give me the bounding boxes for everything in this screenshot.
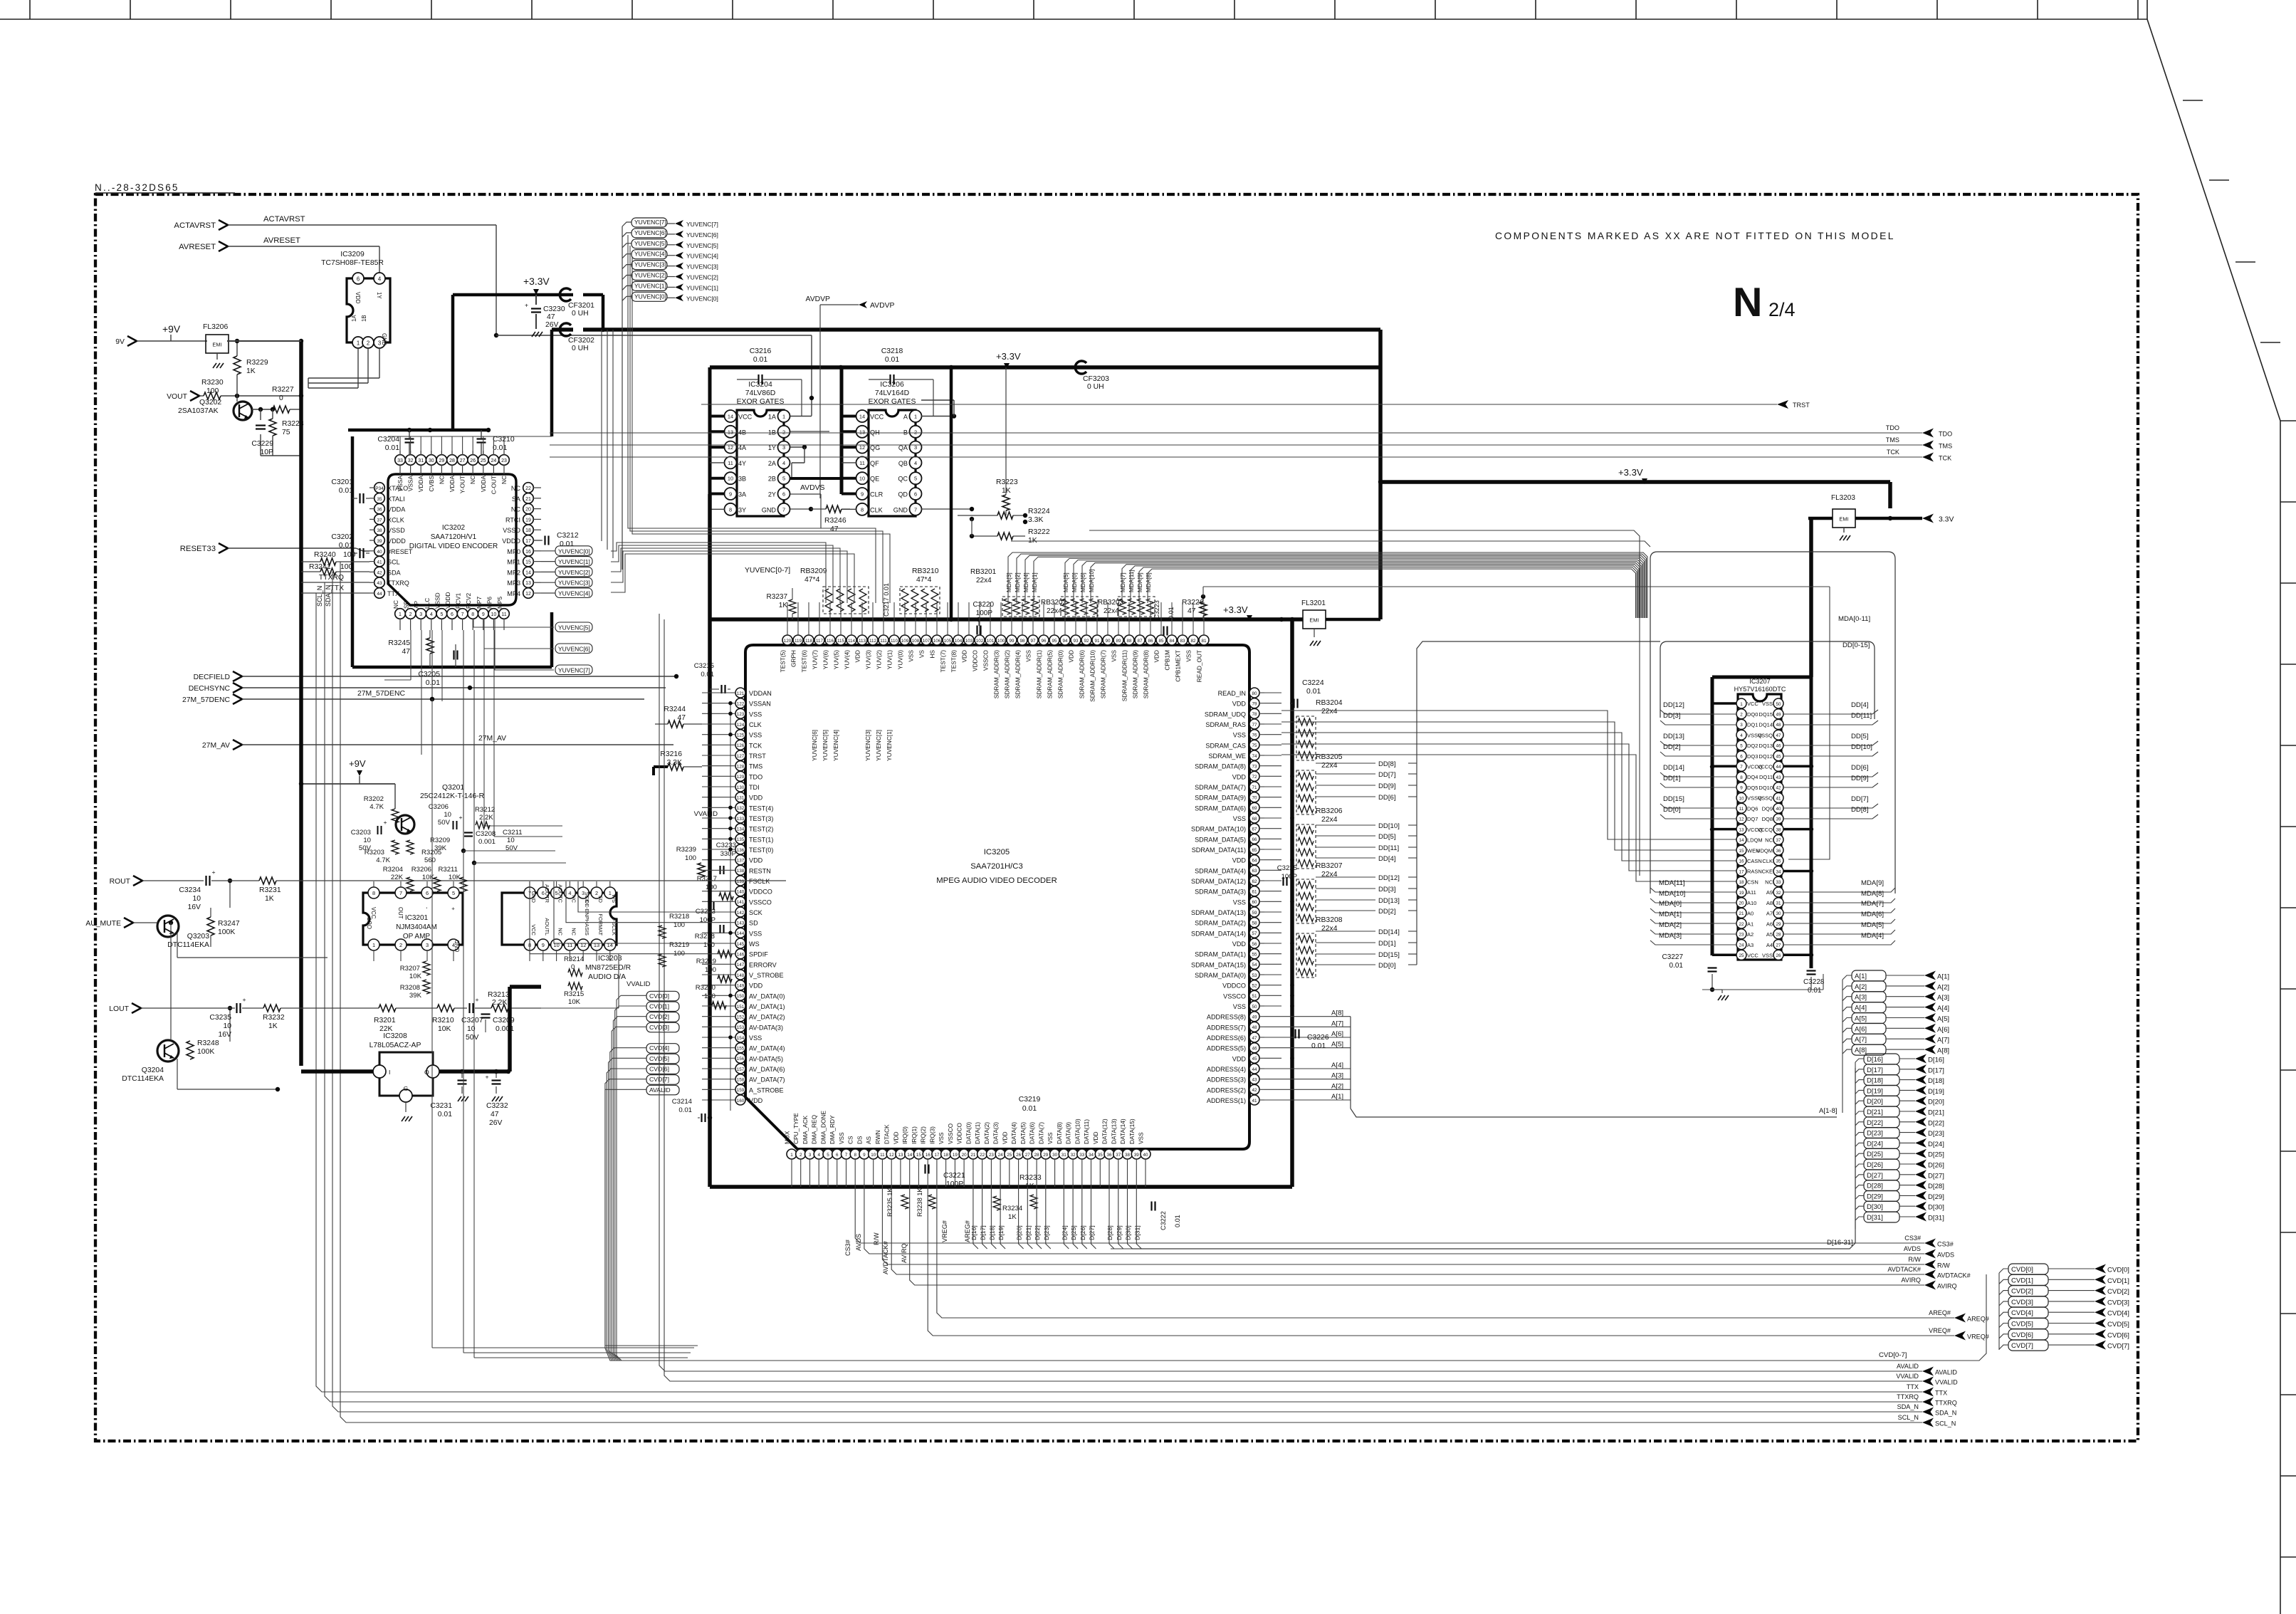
svg-text:DQ11: DQ11	[1759, 774, 1773, 780]
svg-text:DD[0]: DD[0]	[1378, 962, 1396, 970]
svg-text:MP4: MP4	[507, 590, 520, 597]
svg-text:R3203: R3203	[365, 849, 384, 856]
svg-text:96: 96	[1041, 639, 1047, 644]
svg-text:CVD[0-7]: CVD[0-7]	[1879, 1351, 1907, 1359]
svg-text:DMA_ACK: DMA_ACK	[802, 1115, 809, 1144]
svg-text:3.3K: 3.3K	[1028, 516, 1043, 524]
svg-text:CSN: CSN	[1747, 879, 1758, 885]
svg-text:1: 1	[914, 414, 917, 420]
svg-text:158: 158	[737, 1078, 745, 1083]
svg-text:D[20]: D[20]	[1928, 1099, 1944, 1106]
svg-text:2SA1037AK: 2SA1037AK	[178, 407, 219, 415]
svg-text:SDRAM_ADDR(1): SDRAM_ADDR(1)	[1036, 650, 1043, 698]
svg-text:135: 135	[737, 837, 745, 842]
svg-text:DD[4]: DD[4]	[1378, 855, 1396, 863]
svg-text:RESET33: RESET33	[180, 545, 216, 553]
svg-text:CVD[5]: CVD[5]	[2107, 1321, 2129, 1329]
svg-text:119: 119	[795, 639, 802, 644]
svg-text:DD[10]: DD[10]	[1378, 822, 1400, 830]
svg-text:YUVENC[4]: YUVENC[4]	[832, 730, 839, 761]
svg-text:88: 88	[1126, 639, 1132, 644]
svg-text:MDA[9]: MDA[9]	[1861, 879, 1884, 887]
svg-text:CF3201: CF3201	[568, 302, 594, 310]
svg-text:54: 54	[1252, 963, 1257, 968]
svg-text:C3216: C3216	[750, 347, 772, 355]
svg-text:104: 104	[955, 639, 963, 644]
svg-text:VDD: VDD	[1232, 773, 1247, 780]
svg-text:0.01: 0.01	[1174, 1215, 1181, 1227]
svg-text:30: 30	[429, 458, 434, 463]
svg-text:MDA[3]: MDA[3]	[1005, 572, 1012, 592]
svg-text:TEST(8): TEST(8)	[950, 650, 958, 673]
svg-text:C3201: C3201	[331, 478, 353, 486]
svg-text:NC: NC	[1765, 837, 1773, 844]
svg-text:C3210: C3210	[493, 436, 515, 444]
svg-text:D[28]: D[28]	[1928, 1183, 1944, 1190]
svg-text:2: 2	[1740, 713, 1743, 718]
svg-text:SCL_N: SCL_N	[316, 586, 323, 607]
svg-text:QC: QC	[898, 476, 908, 483]
svg-text:SDRAM_DATA(5): SDRAM_DATA(5)	[1195, 836, 1246, 843]
svg-text:YUV(7): YUV(7)	[812, 650, 819, 669]
svg-text:MDA[4]: MDA[4]	[1861, 932, 1884, 940]
svg-text:VCC: VCC	[370, 907, 377, 919]
svg-text:74LV164D: 74LV164D	[875, 389, 909, 397]
svg-text:VSSCO: VSSCO	[982, 649, 990, 671]
svg-text:FL3206: FL3206	[203, 323, 228, 331]
svg-text:DD[11]: DD[11]	[1851, 712, 1872, 720]
svg-text:FSCLK: FSCLK	[749, 878, 770, 885]
svg-text:DTACK: DTACK	[884, 1124, 891, 1144]
svg-text:9: 9	[1740, 786, 1743, 791]
svg-text:DQ2: DQ2	[1747, 743, 1758, 749]
svg-text:C3227: C3227	[1662, 953, 1684, 961]
svg-text:110: 110	[891, 639, 898, 644]
svg-text:48: 48	[1252, 1025, 1257, 1030]
svg-text:EMI: EMI	[212, 342, 221, 348]
svg-text:23: 23	[1739, 933, 1744, 938]
svg-text:157: 157	[737, 1067, 745, 1072]
svg-text:DD[1]: DD[1]	[1378, 940, 1396, 948]
svg-text:46: 46	[1252, 1047, 1257, 1052]
svg-text:4.7K: 4.7K	[376, 856, 390, 864]
svg-text:11: 11	[567, 942, 573, 948]
svg-text:TCK: TCK	[749, 742, 762, 749]
svg-text:VDD: VDD	[1232, 1055, 1247, 1062]
svg-text:35: 35	[1776, 859, 1781, 864]
svg-text:GRPH: GRPH	[790, 650, 797, 667]
svg-text:NC: NC	[511, 506, 521, 513]
svg-text:25: 25	[481, 458, 486, 463]
svg-text:34: 34	[1776, 869, 1781, 874]
svg-text:TC7SH08F-TE85R: TC7SH08F-TE85R	[321, 259, 384, 267]
svg-text:SDA_N: SDA_N	[1897, 1403, 1919, 1410]
svg-text:101: 101	[987, 639, 995, 644]
svg-text:SDRAM_DATA(14): SDRAM_DATA(14)	[1191, 930, 1246, 937]
svg-text:131: 131	[737, 796, 745, 801]
svg-text:DD[3]: DD[3]	[1378, 886, 1396, 894]
svg-text:CVD[3]: CVD[3]	[2011, 1299, 2033, 1306]
svg-text:11: 11	[501, 612, 506, 617]
svg-text:107: 107	[923, 639, 931, 644]
svg-text:13: 13	[594, 942, 599, 948]
svg-text:A9: A9	[1766, 889, 1773, 896]
svg-text:D[17]: D[17]	[1928, 1067, 1944, 1074]
svg-text:MP5: MP5	[496, 597, 503, 609]
svg-text:36: 36	[377, 508, 382, 513]
svg-text:11: 11	[1739, 807, 1744, 812]
svg-text:100K: 100K	[197, 1048, 214, 1056]
svg-text:ADDRESS(1): ADDRESS(1)	[1207, 1097, 1246, 1104]
svg-text:SDRAM_DATA(13): SDRAM_DATA(13)	[1191, 909, 1246, 916]
svg-text:0.01: 0.01	[493, 444, 507, 452]
svg-text:+3.3V: +3.3V	[1618, 467, 1643, 478]
svg-text:34: 34	[1089, 1153, 1094, 1158]
svg-text:VDDD: VDDD	[444, 592, 451, 609]
svg-text:SCL_N: SCL_N	[1898, 1414, 1919, 1421]
svg-text:1K: 1K	[779, 602, 788, 609]
svg-text:AVIRQ: AVIRQ	[1937, 1283, 1957, 1290]
svg-text:TTX: TTX	[1907, 1383, 1919, 1390]
svg-text:VSSCO: VSSCO	[1223, 992, 1246, 1000]
svg-text:140: 140	[737, 890, 745, 895]
svg-text:SCL_N: SCL_N	[1935, 1420, 1956, 1427]
svg-text:D[23]: D[23]	[1867, 1130, 1883, 1138]
svg-text:159: 159	[737, 1088, 745, 1093]
svg-text:YUVENC[0]: YUVENC[0]	[686, 295, 718, 302]
svg-text:MDA[5]: MDA[5]	[1062, 572, 1069, 592]
svg-text:85: 85	[1158, 639, 1164, 644]
svg-text:DD[1]: DD[1]	[1663, 775, 1681, 782]
svg-text:D[29]: D[29]	[1116, 1225, 1123, 1240]
svg-text:DD[8]: DD[8]	[1851, 806, 1869, 814]
svg-text:99: 99	[1009, 639, 1015, 644]
svg-text:YUVENC[1]: YUVENC[1]	[558, 558, 590, 565]
svg-text:18: 18	[525, 528, 531, 533]
svg-text:2.2K: 2.2K	[492, 999, 507, 1007]
svg-text:13: 13	[728, 429, 733, 435]
svg-text:0.001: 0.001	[478, 838, 496, 846]
svg-text:0: 0	[279, 394, 283, 402]
svg-text:WS: WS	[749, 940, 760, 948]
svg-text:CPU_TYPE: CPU_TYPE	[792, 1113, 800, 1144]
svg-text:143: 143	[737, 921, 745, 926]
svg-text:QH: QH	[870, 429, 880, 436]
svg-text:3A: 3A	[738, 491, 747, 498]
svg-text:27M_57DENC: 27M_57DENC	[357, 690, 405, 698]
svg-text:20: 20	[525, 508, 531, 513]
svg-text:C3220: C3220	[973, 601, 995, 609]
svg-text:A3: A3	[1747, 942, 1754, 948]
svg-text:TTX: TTX	[330, 585, 344, 592]
svg-text:A[1]: A[1]	[1937, 973, 1949, 981]
svg-text:ADDRESS(4): ADDRESS(4)	[1207, 1066, 1246, 1073]
svg-text:0.01: 0.01	[426, 679, 440, 687]
svg-text:37: 37	[1776, 838, 1781, 843]
svg-text:SDA: SDA	[387, 569, 402, 576]
svg-text:TEST(4): TEST(4)	[749, 805, 773, 812]
svg-text:DD[15]: DD[15]	[1663, 795, 1684, 803]
svg-text:MP3: MP3	[507, 580, 520, 587]
svg-text:MDA[8]: MDA[8]	[1145, 572, 1152, 592]
svg-text:74: 74	[1252, 754, 1257, 759]
svg-text:VSS: VSS	[749, 732, 762, 739]
svg-text:SD: SD	[749, 920, 758, 927]
svg-text:CASN: CASN	[1747, 858, 1762, 864]
svg-text:TTX: TTX	[387, 590, 399, 597]
svg-text:XTALI: XTALI	[387, 496, 405, 503]
svg-text:VDDAN: VDDAN	[749, 690, 772, 697]
svg-text:VSS: VSS	[1233, 898, 1246, 906]
svg-text:3: 3	[809, 1153, 812, 1158]
svg-text:A[4]: A[4]	[1855, 1005, 1867, 1012]
svg-text:IC3205: IC3205	[984, 848, 1010, 856]
svg-text:YUVENC[6]: YUVENC[6]	[558, 646, 590, 653]
svg-text:6: 6	[1740, 754, 1743, 759]
svg-text:VDD: VDD	[1153, 650, 1160, 663]
svg-text:56: 56	[1252, 942, 1257, 947]
svg-text:28: 28	[1034, 1153, 1040, 1158]
svg-text:AVDTACK#: AVDTACK#	[882, 1240, 889, 1274]
svg-text:22x4: 22x4	[1104, 607, 1119, 615]
svg-text:DATA(4): DATA(4)	[1010, 1122, 1017, 1144]
svg-text:MDA[2]: MDA[2]	[1659, 921, 1682, 929]
svg-text:47: 47	[1188, 607, 1196, 615]
svg-text:YUVENC[5]: YUVENC[5]	[634, 240, 666, 247]
svg-text:A7: A7	[1766, 911, 1773, 917]
svg-text:22K: 22K	[391, 874, 404, 881]
svg-text:26: 26	[1776, 953, 1781, 958]
svg-text:97: 97	[1030, 639, 1036, 644]
svg-text:0.01: 0.01	[1669, 962, 1684, 970]
svg-text:C-OUT: C-OUT	[490, 476, 497, 494]
svg-text:IC3204: IC3204	[748, 381, 772, 389]
svg-text:YUVENC[3]: YUVENC[3]	[864, 730, 871, 761]
svg-text:A[4]: A[4]	[1937, 1005, 1949, 1012]
svg-text:DD[0]: DD[0]	[1663, 806, 1681, 814]
svg-text:100: 100	[685, 854, 696, 862]
svg-text:YUVENC[4]: YUVENC[4]	[558, 590, 590, 597]
svg-text:DIGITAL VIDEO ENCODER: DIGITAL VIDEO ENCODER	[409, 543, 498, 550]
svg-text:47*4: 47*4	[804, 576, 820, 584]
svg-text:10K: 10K	[449, 874, 461, 881]
svg-text:D[26]: D[26]	[1928, 1162, 1944, 1170]
svg-text:A[4]: A[4]	[1331, 1062, 1343, 1069]
svg-text:C3230: C3230	[543, 305, 565, 313]
svg-text:113: 113	[859, 639, 866, 644]
svg-text:46: 46	[1776, 744, 1781, 749]
svg-text:D[31]: D[31]	[1133, 1225, 1141, 1240]
svg-text:6: 6	[357, 276, 360, 283]
svg-text:RB3207: RB3207	[1316, 862, 1343, 870]
svg-text:53: 53	[1252, 973, 1257, 978]
svg-text:42: 42	[377, 570, 382, 575]
svg-text:27M_AV: 27M_AV	[202, 742, 230, 750]
svg-text:C3226: C3226	[1307, 1034, 1329, 1042]
svg-text:R3207: R3207	[400, 965, 420, 973]
svg-text:YUVENC[3]: YUVENC[3]	[634, 261, 666, 268]
svg-text:15: 15	[1739, 849, 1744, 854]
svg-text:0.01: 0.01	[339, 487, 353, 495]
svg-text:D[30]: D[30]	[1928, 1204, 1944, 1212]
svg-text:R3213: R3213	[488, 991, 510, 999]
svg-text:16V: 16V	[219, 1031, 232, 1039]
svg-text:SDRAM_ADDR(5): SDRAM_ADDR(5)	[1047, 650, 1054, 698]
svg-text:41: 41	[1776, 796, 1781, 801]
svg-text:R3217: R3217	[697, 875, 717, 883]
svg-text:14: 14	[907, 1153, 913, 1158]
svg-text:VDD: VDD	[749, 1097, 763, 1104]
svg-text:40: 40	[377, 550, 382, 555]
svg-text:DD[0-15]: DD[0-15]	[1842, 641, 1870, 649]
svg-text:NC: NC	[511, 485, 521, 492]
svg-text:D[19]: D[19]	[1867, 1087, 1883, 1095]
svg-text:75: 75	[1252, 743, 1257, 748]
svg-text:142: 142	[737, 911, 745, 916]
svg-text:0.01: 0.01	[560, 540, 574, 548]
svg-text:YUV(5): YUV(5)	[833, 650, 840, 669]
svg-text:MDA[7]: MDA[7]	[1119, 572, 1126, 592]
svg-text:D[16]: D[16]	[1867, 1056, 1883, 1064]
svg-text:17: 17	[525, 539, 531, 544]
svg-text:28: 28	[1776, 933, 1781, 938]
svg-text:105: 105	[944, 639, 952, 644]
svg-text:89: 89	[1116, 639, 1121, 644]
svg-text:ERRORV: ERRORV	[749, 961, 777, 968]
svg-text:A0: A0	[1747, 911, 1754, 917]
svg-text:R3235 1K: R3235 1K	[886, 1188, 893, 1217]
svg-text:1A: 1A	[351, 315, 357, 322]
svg-text:SCL: SCL	[387, 559, 400, 566]
svg-text:0.01: 0.01	[1808, 987, 1822, 995]
svg-text:DQ3: DQ3	[1747, 753, 1758, 760]
svg-text:149: 149	[737, 984, 745, 989]
svg-text:132: 132	[737, 806, 745, 811]
svg-text:IRQ(0): IRQ(0)	[901, 1126, 908, 1144]
svg-text:0.01: 0.01	[1306, 688, 1321, 696]
svg-text:YUVENC[7]: YUVENC[7]	[634, 219, 666, 226]
svg-text:NC: NC	[570, 928, 577, 936]
svg-text:VSS: VSS	[1047, 1132, 1054, 1144]
svg-text:D[20]: D[20]	[1867, 1098, 1883, 1106]
svg-text:YUVENC[1]: YUVENC[1]	[686, 284, 718, 291]
svg-text:OUT: OUT	[367, 917, 373, 929]
svg-text:R3208: R3208	[400, 984, 420, 992]
svg-text:MDA[11]: MDA[11]	[1128, 570, 1135, 592]
svg-text:24: 24	[491, 458, 497, 463]
svg-text:40: 40	[1143, 1153, 1148, 1158]
svg-text:RESTN: RESTN	[749, 867, 771, 874]
svg-text:VDD: VDD	[1232, 940, 1247, 948]
svg-text:N..-28-32DS65: N..-28-32DS65	[95, 182, 179, 193]
svg-text:22: 22	[980, 1153, 985, 1158]
svg-text:MDA[11]: MDA[11]	[1659, 879, 1685, 887]
svg-text:VSS: VSS	[1233, 815, 1246, 822]
svg-text:37: 37	[1116, 1153, 1121, 1158]
svg-text:MDA[7]: MDA[7]	[1861, 900, 1884, 908]
svg-text:D[20]: D[20]	[1016, 1225, 1023, 1240]
svg-text:13: 13	[1739, 827, 1744, 832]
svg-text:-: -	[424, 907, 430, 909]
svg-text:VSSD: VSSD	[503, 527, 520, 534]
svg-text:VCC: VCC	[870, 414, 884, 421]
svg-text:118: 118	[805, 639, 813, 644]
svg-text:10K: 10K	[568, 998, 581, 1006]
svg-text:35: 35	[1098, 1153, 1104, 1158]
svg-text:CVD[7]: CVD[7]	[2011, 1342, 2033, 1350]
svg-text:78: 78	[1252, 712, 1257, 717]
svg-text:MDA[1]: MDA[1]	[1031, 572, 1038, 592]
svg-text:L78L05ACZ-AP: L78L05ACZ-AP	[369, 1042, 421, 1049]
svg-text:R3224: R3224	[1028, 508, 1050, 515]
svg-text:D[24]: D[24]	[1928, 1141, 1944, 1148]
svg-text:D[21]: D[21]	[1928, 1109, 1944, 1117]
svg-text:51: 51	[1252, 994, 1257, 999]
svg-text:AVDS: AVDS	[1937, 1252, 1954, 1259]
svg-text:A[5]: A[5]	[1855, 1015, 1867, 1023]
svg-text:R3204: R3204	[383, 866, 404, 874]
svg-text:VCC: VCC	[738, 414, 753, 421]
svg-text:9: 9	[542, 942, 545, 948]
svg-text:SDRAM_DATA(2): SDRAM_DATA(2)	[1195, 920, 1246, 927]
svg-text:AVDTACK#: AVDTACK#	[1937, 1272, 1971, 1279]
svg-text:MDA[3]: MDA[3]	[1659, 932, 1682, 940]
svg-text:+: +	[243, 996, 246, 1003]
svg-text:SPDIF: SPDIF	[749, 951, 768, 958]
svg-text:18: 18	[943, 1153, 949, 1158]
svg-text:6: 6	[451, 612, 454, 617]
svg-text:148: 148	[737, 973, 745, 978]
svg-text:VDD: VDD	[749, 982, 763, 990]
svg-text:10: 10	[444, 811, 451, 819]
svg-text:D[27]: D[27]	[1928, 1172, 1944, 1180]
svg-text:90: 90	[1105, 639, 1111, 644]
svg-text:4: 4	[378, 276, 382, 283]
svg-text:AOUTC: AOUTC	[557, 884, 564, 903]
svg-text:DQ8: DQ8	[1762, 816, 1773, 822]
svg-text:VDDA: VDDA	[417, 476, 424, 493]
svg-text:TRST: TRST	[1793, 402, 1810, 409]
svg-text:TCK: TCK	[1887, 449, 1899, 456]
svg-text:A[6]: A[6]	[1331, 1030, 1343, 1038]
svg-text:SDRAM_ADDR(10): SDRAM_ADDR(10)	[1089, 650, 1096, 702]
svg-text:55: 55	[1252, 953, 1257, 958]
svg-text:SDRAM_DATA(12): SDRAM_DATA(12)	[1191, 878, 1246, 885]
svg-text:36: 36	[1776, 849, 1781, 854]
svg-text:146: 146	[737, 953, 745, 958]
svg-text:87: 87	[1137, 639, 1143, 644]
svg-text:2A: 2A	[768, 460, 777, 467]
svg-text:AVRESET: AVRESET	[179, 243, 216, 251]
svg-text:CVD[6]: CVD[6]	[2107, 1331, 2129, 1339]
svg-text:3: 3	[1740, 723, 1743, 728]
svg-text:R/W: R/W	[1937, 1262, 1950, 1269]
svg-text:2.2K: 2.2K	[479, 814, 493, 822]
svg-text:VDDCO: VDDCO	[972, 649, 979, 671]
svg-text:D[18]: D[18]	[1928, 1077, 1944, 1085]
svg-text:33: 33	[397, 458, 403, 463]
svg-text:C3228: C3228	[1803, 978, 1825, 986]
svg-text:CS3#: CS3#	[1937, 1241, 1954, 1248]
svg-text:VDDA: VDDA	[480, 476, 487, 493]
svg-text:B: B	[903, 429, 908, 436]
svg-text:10: 10	[728, 476, 733, 482]
svg-text:R3209: R3209	[430, 837, 450, 844]
svg-text:D[24]: D[24]	[1061, 1225, 1068, 1240]
svg-text:VDD: VDD	[355, 292, 361, 304]
svg-text:R3247: R3247	[218, 920, 240, 928]
svg-text:SDRAM_DATA(8): SDRAM_DATA(8)	[1195, 763, 1246, 770]
